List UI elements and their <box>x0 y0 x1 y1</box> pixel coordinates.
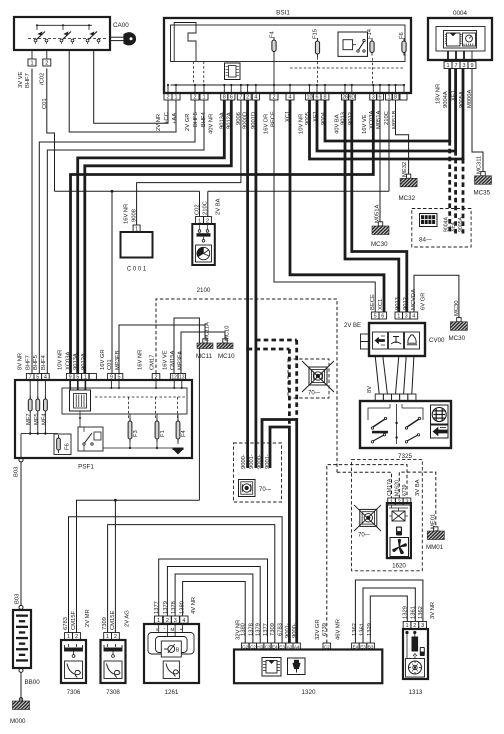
svg-text:A3: A3 <box>287 644 293 649</box>
wire CM15F CM15E <box>77 500 200 632</box>
CV00 lighting icon <box>375 338 385 344</box>
svg-text:1620: 1620 <box>392 563 406 570</box>
svg-text:1: 1 <box>174 95 177 101</box>
wire BHF5 <box>39 100 195 374</box>
svg-text:2: 2 <box>166 95 169 101</box>
svg-text:BECE: BECE <box>370 294 376 310</box>
svg-text:B: B <box>176 648 180 654</box>
svg-text:2: 2 <box>193 95 196 101</box>
fuse MF4 <box>44 380 46 399</box>
svg-text:9012A: 9012A <box>81 353 87 370</box>
1620 thermo icon <box>396 527 402 536</box>
wire 9004A <box>325 100 450 141</box>
svg-text:B3: B3 <box>368 644 374 649</box>
svg-text:BSI1: BSI1 <box>276 10 290 17</box>
svg-text:CA00: CA00 <box>113 22 129 29</box>
svg-text:1: 1 <box>67 634 70 640</box>
wire 1361 <box>363 588 415 643</box>
svg-text:C01: C01 <box>107 359 113 370</box>
svg-text:3: 3 <box>372 95 375 101</box>
BSI internal partition <box>174 23 196 62</box>
PSF1 internal ground <box>177 443 179 445</box>
wire M051A to ground <box>379 100 381 222</box>
wire +AA <box>69 50 176 132</box>
wire 1378 <box>175 574 253 643</box>
svg-text:MC10: MC10 <box>225 326 231 341</box>
svg-text:1380: 1380 <box>241 623 247 636</box>
svg-text:BHF5: BHF5 <box>33 355 39 370</box>
diagnostic socket 2100 <box>192 224 215 265</box>
fuse F15 <box>315 41 319 54</box>
svg-text:PSF1: PSF1 <box>78 464 94 471</box>
svg-text:5: 5 <box>374 314 377 320</box>
wire BECE <box>274 100 375 312</box>
svg-text:CM15A: CM15A <box>170 351 176 370</box>
svg-text:BB00: BB00 <box>25 679 41 686</box>
svg-text:3: 3 <box>421 623 424 629</box>
svg-text:ME01: ME01 <box>431 514 437 529</box>
PSF1 internal bus low <box>103 447 178 449</box>
wire XC1 <box>290 100 384 312</box>
option box 70 lower (dashed) <box>234 443 282 502</box>
svg-text:9001-: 9001- <box>265 454 271 469</box>
PSF1 connector 7 5 4 <box>26 374 34 381</box>
svg-text:M: M <box>171 627 175 632</box>
svg-text:1378: 1378 <box>171 601 177 614</box>
option box 1620 (dashed) <box>352 459 423 570</box>
svg-text:2: 2 <box>246 95 249 101</box>
svg-text:1313: 1313 <box>409 689 423 696</box>
0004 connector pins <box>444 62 452 69</box>
svg-text:16V VE: 16V VE <box>362 114 368 134</box>
svg-text:BHF5: BHF5 <box>193 112 199 127</box>
svg-text:2V BE: 2V BE <box>344 323 361 329</box>
0004 chip icon <box>447 33 461 46</box>
ground MC32 <box>406 174 410 178</box>
wire CV00 to 7325 - 5 links <box>375 356 379 394</box>
wire CM15A <box>174 318 199 500</box>
instrument cluster 0004 <box>428 18 492 60</box>
svg-text:4: 4 <box>44 375 47 381</box>
wire BHF4 <box>47 100 204 374</box>
svg-text:8V: 8V <box>367 386 373 393</box>
PSF1 connector 9 5 (C) <box>108 374 116 381</box>
svg-text:M1620: M1620 <box>395 480 401 496</box>
svg-text:CM17A: CM17A <box>387 478 393 496</box>
BSI internal connector icon <box>225 63 241 80</box>
svg-text:F1: F1 <box>160 430 166 437</box>
wire +CC <box>94 50 168 123</box>
svg-text:1380: 1380 <box>180 601 186 614</box>
svg-text:16V NR: 16V NR <box>138 350 144 370</box>
svg-text:M051A: M051A <box>375 204 381 223</box>
svg-text:13: 13 <box>179 375 185 381</box>
svg-text:7308: 7308 <box>106 689 120 696</box>
BSI pin row - connector BHF5 BHF4 <box>191 93 199 100</box>
svg-text:18V NR: 18V NR <box>436 84 442 104</box>
svg-text:1: 1 <box>157 618 160 624</box>
svg-text:9000-: 9000- <box>257 454 263 469</box>
wire MCVDA to MC30 <box>414 275 459 318</box>
svg-text:26: 26 <box>342 95 348 101</box>
svg-text:2100: 2100 <box>197 287 211 294</box>
70 lower fan icon <box>239 480 256 497</box>
wire 9006 to C001 <box>137 100 241 225</box>
wire 210C to 2100 pin2 <box>207 191 209 216</box>
svg-text:1: 1 <box>390 500 393 506</box>
svg-text:C02: C02 <box>195 204 201 215</box>
svg-text:7: 7 <box>29 375 32 381</box>
option connector box 84 (dashed) <box>412 209 471 248</box>
BSI inner frame <box>171 25 406 62</box>
ground MC11 <box>203 339 207 343</box>
cigar lighter 7308 <box>101 640 126 683</box>
svg-text:1: 1 <box>84 375 87 381</box>
7325 internal frame <box>368 408 423 420</box>
CV00 left connector <box>361 334 370 342</box>
svg-text:1: 1 <box>30 61 33 67</box>
svg-text:32V GR: 32V GR <box>315 619 321 640</box>
steering column control CV00 <box>369 323 425 356</box>
svg-text:2: 2 <box>75 634 78 640</box>
svg-text:5: 5 <box>117 375 120 381</box>
svg-text:MC10: MC10 <box>218 353 235 360</box>
svg-text:MC30: MC30 <box>371 241 388 248</box>
1320 chip icon <box>262 658 281 677</box>
wire 9005A from 0004 <box>462 69 465 160</box>
svg-text:10: 10 <box>306 95 312 101</box>
svg-text:B03: B03 <box>14 467 20 477</box>
svg-text:F4: F4 <box>270 30 276 38</box>
svg-text:7: 7 <box>454 63 457 69</box>
svg-text:9008: 9008 <box>132 209 138 222</box>
svg-text:2V NR: 2V NR <box>156 114 162 131</box>
svg-text:6: 6 <box>230 95 233 101</box>
svg-text:1: 1 <box>198 218 201 224</box>
svg-text:84-–: 84-– <box>419 237 432 244</box>
BSI pin row - connector +CC +AA <box>164 93 172 100</box>
wire XE1 <box>317 100 456 151</box>
svg-text:3V BA: 3V BA <box>415 479 421 496</box>
svg-text:BHF7: BHF7 <box>25 355 31 370</box>
svg-text:C 0 0 1: C 0 0 1 <box>127 267 147 273</box>
svg-text:C2: C2 <box>250 644 256 649</box>
wire B03 battery cable <box>20 462 22 606</box>
svg-text:C2: C2 <box>324 644 330 649</box>
7308 lighter icon <box>104 661 122 679</box>
PSF1 internal dashed bus <box>95 396 185 398</box>
fuse F14 <box>370 41 374 53</box>
svg-text:CM15F: CM15F <box>71 611 77 630</box>
fuse F4 <box>272 40 276 52</box>
wire M1620 dashed to MM01 <box>399 472 436 527</box>
svg-text:9: 9 <box>110 375 113 381</box>
svg-text:F15: F15 <box>313 29 319 39</box>
wire M000A to MC35 <box>472 69 483 172</box>
svg-text:ME32: ME32 <box>402 162 408 177</box>
wire 7309 <box>108 525 275 643</box>
cigar lighter 7306 <box>61 640 86 683</box>
ground MM01 <box>434 527 438 531</box>
svg-text:7: 7 <box>239 95 242 101</box>
wire 1377 <box>159 559 268 643</box>
svg-text:40V NR: 40V NR <box>209 114 215 134</box>
svg-text:MF5: MF5 <box>34 413 40 425</box>
wire 9001- dashed jog <box>248 348 290 351</box>
wire 9004A from 0004 <box>448 69 451 142</box>
fuel pump unit 1313 <box>403 629 428 679</box>
svg-text:9013A: 9013A <box>73 353 79 370</box>
svg-text:1: 1 <box>446 63 449 69</box>
relay in BSI <box>338 32 368 56</box>
svg-text:9005A: 9005A <box>458 216 464 232</box>
PSF1 internal connector icon <box>70 390 91 411</box>
wire 6739 dashed <box>327 465 407 643</box>
svg-text:6: 6 <box>315 95 318 101</box>
wire MP3FA to MC10 <box>181 332 225 374</box>
fan unit 1620 <box>387 503 411 558</box>
svg-text:F3: F3 <box>133 430 139 437</box>
svg-text:9004A: 9004A <box>443 91 449 108</box>
svg-text:2: 2 <box>413 623 416 629</box>
PSF1 connector 12 13 (E) <box>170 374 178 381</box>
2100 timer icon <box>196 245 212 262</box>
wire XC03A <box>71 100 374 374</box>
connector pins 1 2 of CA00 <box>28 59 36 66</box>
PSF1 internal relay 2 <box>78 427 103 451</box>
svg-text:M000: M000 <box>10 718 26 725</box>
wire XE1 option (dashed) <box>454 151 457 234</box>
svg-text:1261: 1261 <box>165 689 179 696</box>
svg-text:MF4: MF4 <box>42 413 48 425</box>
svg-text:8: 8 <box>223 95 226 101</box>
battery BB00 <box>13 610 31 668</box>
wire 1329 <box>370 596 407 643</box>
wire battery to ground M000 <box>20 673 22 701</box>
wire CM17A dashed <box>337 472 392 498</box>
svg-text:6V GR: 6V GR <box>420 293 426 310</box>
svg-text:4: 4 <box>288 95 291 101</box>
7325 arrow icon <box>431 425 449 438</box>
1261 lighter icon <box>163 661 179 679</box>
1261 rheostat icon <box>161 641 181 657</box>
svg-text:MC35: MC35 <box>474 190 491 197</box>
svg-text:MP3FA: MP3FA <box>178 351 184 370</box>
svg-text:70-–: 70-– <box>308 391 321 397</box>
wire C01 branch to PSF1 <box>111 191 113 373</box>
svg-text:5: 5 <box>36 375 39 381</box>
svg-text:8V NR: 8V NR <box>18 353 24 370</box>
wire 9013A <box>78 100 225 374</box>
1313 internals <box>405 631 408 634</box>
fuse box PSF1 <box>15 380 192 458</box>
CV00 horn icon <box>408 335 416 343</box>
1620 resistor icon <box>392 511 405 521</box>
BSI pin row - connector 16V VE <box>370 93 377 100</box>
svg-text:2: 2 <box>272 95 275 101</box>
svg-text:2V MR: 2V MR <box>85 609 91 627</box>
svg-text:1361: 1361 <box>410 606 416 619</box>
wire C01 C02 210C <box>55 190 200 192</box>
svg-text:9001-: 9001- <box>285 623 291 638</box>
BSI unit BSI1 <box>164 18 411 93</box>
svg-text:F6: F6 <box>65 443 71 450</box>
svg-text:46V MR: 46V MR <box>336 619 342 640</box>
svg-text:7309: 7309 <box>102 617 108 630</box>
svg-text:1377: 1377 <box>263 623 269 636</box>
wire CM15E branch <box>114 500 116 632</box>
svg-text:1329: 1329 <box>403 606 409 619</box>
wire 1379 <box>167 567 260 644</box>
mechanical link (dashed) <box>28 38 108 40</box>
fuse F4 psf <box>176 421 180 439</box>
svg-text:B03: B03 <box>15 594 21 604</box>
fuse MF7 <box>29 380 31 399</box>
svg-text:16V NR: 16V NR <box>124 204 130 224</box>
svg-text:BHF4: BHF4 <box>41 354 47 370</box>
fuse MF5 <box>37 380 39 399</box>
svg-text:2: 2 <box>166 618 169 624</box>
wire 9004A option (dashed) <box>448 141 451 234</box>
svg-text:1: 1 <box>397 314 400 320</box>
svg-text:5: 5 <box>76 375 79 381</box>
lighter dimmer unit 1261 <box>144 624 199 683</box>
svg-text:2V BA: 2V BA <box>216 198 222 215</box>
wire 9012 BSI to CV00 pin3 <box>352 100 407 312</box>
1620 fan blade icon <box>390 538 409 557</box>
wire BHF7 <box>31 69 33 374</box>
svg-text:3: 3 <box>462 63 465 69</box>
PSF1 lower bus <box>21 433 58 435</box>
svg-text:4: 4 <box>182 618 185 624</box>
svg-text:9013: 9013 <box>395 297 401 310</box>
svg-text:9000-: 9000- <box>292 623 298 638</box>
svg-text:1378: 1378 <box>248 623 254 636</box>
svg-text:7309: 7309 <box>270 623 276 636</box>
engine ecu connector 1320 <box>234 650 382 684</box>
0004 icon frame <box>444 31 477 49</box>
svg-text:XC1: XC1 <box>378 299 384 310</box>
1320 injector icon <box>288 658 306 675</box>
svg-text:1362: 1362 <box>418 606 424 619</box>
BSI internal dashed links <box>290 67 405 69</box>
BSI pin row - connector 40V NR <box>221 93 228 100</box>
84 connector icon <box>420 214 438 227</box>
wire 9001- to 1320 <box>270 427 289 643</box>
svg-text:10V NR: 10V NR <box>299 114 305 134</box>
svg-text:10V NR: 10V NR <box>58 350 64 370</box>
wire MP3FB to MC11 <box>119 325 205 374</box>
fuse F6 <box>402 41 406 53</box>
svg-text:+AA: +AA <box>172 113 178 124</box>
PSF1 inner box <box>62 388 187 414</box>
svg-text:9: 9 <box>69 375 72 381</box>
PSF1 connector 2 (D) <box>152 374 160 381</box>
svg-text:CV00: CV00 <box>429 337 445 344</box>
ignition switch CA00 <box>14 17 110 50</box>
wire CM17 dashed <box>156 299 337 472</box>
svg-text:1: 1 <box>135 227 138 233</box>
svg-text:F4: F4 <box>181 429 187 437</box>
CV00 icon cells <box>373 332 388 349</box>
svg-text:BHF7: BHF7 <box>25 73 31 88</box>
svg-text:1: 1 <box>202 95 205 101</box>
connector C001 <box>121 232 153 258</box>
wire C02 to 2100 pin1 <box>199 191 201 216</box>
BSI internal bus <box>171 84 406 86</box>
70 upper rear screen icon crossed <box>309 367 327 385</box>
wire XE1 from 0004 <box>454 69 457 152</box>
svg-text:70-–: 70-– <box>259 487 272 493</box>
svg-text:3: 3 <box>405 500 408 506</box>
fuse F3 <box>128 421 132 439</box>
svg-text:E3: E3 <box>360 644 366 649</box>
svg-text:H3: H3 <box>257 644 263 649</box>
svg-text:/C02: /C02 <box>40 73 46 85</box>
wire 9012A <box>85 100 232 374</box>
svg-text:9001-: 9001- <box>249 454 255 469</box>
svg-text:210C: 210C <box>203 201 209 215</box>
2100 internal switch <box>198 230 201 233</box>
svg-text:6783: 6783 <box>278 623 284 636</box>
svg-text:1362: 1362 <box>352 623 358 636</box>
PSF1 connector 9 5 1 <box>66 374 74 381</box>
BSI pin row - connector 10V NR <box>306 93 314 100</box>
svg-text:8: 8 <box>394 95 397 101</box>
svg-text:7306: 7306 <box>67 689 81 696</box>
svg-text:XE4: XE4 <box>451 222 457 232</box>
svg-text:1: 1 <box>106 634 109 640</box>
hazard switch unit 7325 <box>360 401 451 448</box>
svg-text:E4: E4 <box>272 644 278 649</box>
BSI pin row - connector 40V BA <box>342 93 349 100</box>
option box 70 upper (dashed) <box>288 359 329 398</box>
7325 fan icon <box>431 405 449 424</box>
svg-text:3: 3 <box>405 314 408 320</box>
svg-text:70-–: 70-– <box>358 533 371 539</box>
wire 9013 BSI to CV00 pin1 <box>345 100 399 312</box>
ground MC35 <box>481 172 485 176</box>
svg-text:1379: 1379 <box>163 601 169 614</box>
svg-text:3V VE: 3V VE <box>18 71 24 88</box>
svg-text:C3: C3 <box>265 644 271 649</box>
svg-text:1320: 1320 <box>301 689 316 696</box>
fuse F1 <box>155 421 159 439</box>
svg-text:MC30: MC30 <box>454 301 460 316</box>
svg-text:MP3FB: MP3FB <box>115 351 121 370</box>
svg-text:6739: 6739 <box>402 484 408 496</box>
svg-text:MC11: MC11 <box>196 353 213 360</box>
svg-text:16V VE: 16V VE <box>163 350 169 370</box>
BSI pin - BECE <box>270 93 278 100</box>
svg-text:1: 1 <box>405 623 408 629</box>
svg-text:9: 9 <box>470 63 473 69</box>
ground M000 <box>13 701 30 710</box>
PSF1 pin stubs into inner box <box>110 380 112 388</box>
CV00 wiper icon <box>391 342 401 344</box>
svg-text:A4: A4 <box>294 644 300 649</box>
svg-text:M051A: M051A <box>376 110 382 129</box>
svg-text:E3: E3 <box>279 644 285 649</box>
1313 pump icon <box>406 659 425 678</box>
wire 9005A <box>310 100 464 159</box>
key symbol <box>110 36 124 38</box>
svg-text:G2: G2 <box>242 644 249 649</box>
svg-text:16V GR: 16V GR <box>100 349 106 370</box>
svg-text:9004A: 9004A <box>443 216 449 232</box>
svg-text:12: 12 <box>171 375 177 381</box>
svg-text:F6: F6 <box>399 32 405 39</box>
